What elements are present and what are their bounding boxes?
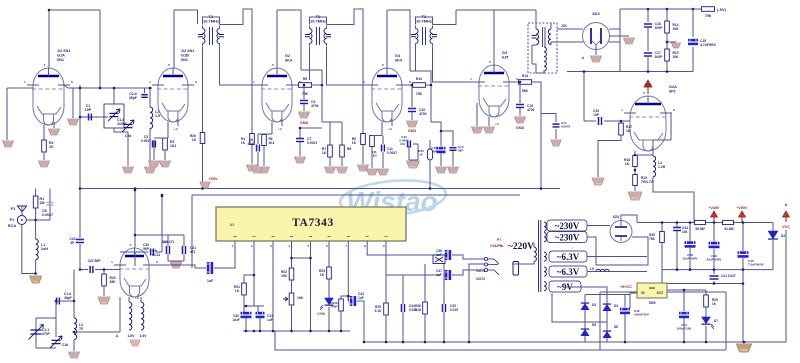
label C42 bbox=[634, 309, 649, 317]
ground below L3 bbox=[69, 352, 80, 358]
inductor L1 bbox=[36, 239, 39, 260]
capacitor C6 bypass bbox=[257, 145, 260, 152]
label R23 bbox=[319, 269, 325, 277]
label V8 bbox=[592, 11, 600, 16]
svg-text:G2A: G2A bbox=[669, 85, 677, 89]
label L1 bbox=[41, 243, 48, 251]
node PSU junctions bbox=[689, 221, 692, 224]
svg-text:G3: G3 bbox=[395, 54, 400, 58]
capacitor C22 bbox=[90, 266, 93, 273]
wire: R14 rail bbox=[666, 9, 668, 21]
svg-text:C41 0.047: C41 0.047 bbox=[721, 274, 736, 278]
label C10 bbox=[419, 108, 427, 116]
LED D7 bbox=[702, 317, 711, 324]
potentiometer VR1 bbox=[289, 293, 294, 305]
node detector junctions bbox=[647, 8, 650, 11]
label D4 bbox=[614, 304, 618, 308]
T4 tertiary winding bbox=[544, 47, 546, 71]
wire: T1 secondary left down to bus bbox=[202, 47, 204, 189]
wire: L3 leads bbox=[74, 270, 120, 352]
wire: C1 line bbox=[80, 116, 108, 118]
IC U1 pin marks bbox=[234, 236, 388, 238]
svg-text:D2: D2 bbox=[781, 234, 785, 238]
label R4 bbox=[241, 137, 246, 145]
wire: C5 branch bbox=[303, 85, 305, 99]
diode D4 bbox=[603, 304, 611, 311]
wire: vertical rail x100 bbox=[99, 10, 101, 88]
wire: rail x453 bbox=[441, 131, 453, 146]
decorative watermark swoosh bbox=[339, 176, 448, 219]
wire: V7 grid input bbox=[95, 269, 120, 271]
detector diode tube V8 (6D2) bbox=[583, 23, 610, 50]
capacitor C11 bypass bbox=[382, 145, 385, 152]
wire: T4 to detector top bbox=[557, 28, 583, 30]
capacitor C3 bypass bbox=[153, 141, 156, 148]
capacitor C35 bbox=[443, 304, 446, 312]
IF transformer T3 bbox=[411, 14, 437, 47]
pentode V2 (6K4) bbox=[149, 63, 197, 122]
capacitor C40 bbox=[738, 251, 749, 257]
converter V7 (6U1) bbox=[111, 243, 158, 297]
wire: rail x441 bbox=[431, 122, 441, 146]
svg-text:A: A bbox=[582, 56, 585, 60]
capacitor C31 bbox=[256, 312, 265, 318]
svg-text:1K: 1K bbox=[49, 145, 54, 149]
wire: zener column bbox=[772, 223, 774, 270]
resistor R15 bbox=[665, 49, 670, 61]
T4 primary cap bbox=[532, 36, 537, 39]
node V3 junctions bbox=[321, 84, 324, 87]
svg-text:0.0047: 0.0047 bbox=[141, 139, 151, 143]
svg-text:10.7MHz: 10.7MHz bbox=[416, 19, 432, 24]
svg-text:U1: U1 bbox=[230, 223, 235, 227]
resistor R24b bbox=[339, 299, 344, 311]
ground below C15 bbox=[515, 117, 526, 123]
wire: 230V-2 to rectifier loop bbox=[587, 237, 648, 265]
wire: C23 right bbox=[214, 267, 235, 269]
node V5 junctions bbox=[519, 81, 522, 84]
svg-text:P1: P1 bbox=[10, 218, 15, 222]
resistor R9 decoupling bbox=[361, 134, 366, 145]
capacitor C42 bbox=[620, 308, 630, 314]
svg-text:6Z4: 6Z4 bbox=[613, 215, 620, 219]
LED D7 arrows bbox=[711, 324, 714, 329]
label C7 bbox=[307, 137, 317, 145]
wire: V2 plate lead bbox=[173, 10, 175, 68]
capacitor C8 trimmer bbox=[47, 203, 54, 206]
wire: R24b leads bbox=[329, 296, 350, 331]
svg-text:1K: 1K bbox=[320, 273, 325, 277]
wire: R23 down bbox=[328, 279, 330, 298]
label R6 bbox=[269, 137, 275, 145]
svg-text:1.6V: 1.6V bbox=[140, 334, 148, 338]
svg-text:0.0047: 0.0047 bbox=[399, 139, 409, 143]
ground below C14b bbox=[551, 140, 561, 146]
voltage tap box 230V-2 bbox=[547, 232, 587, 243]
svg-text:1uF: 1uF bbox=[358, 296, 364, 300]
label C43 bbox=[677, 323, 692, 331]
IC U1 TA7343 body bbox=[216, 207, 406, 241]
svg-text:100P: 100P bbox=[655, 55, 664, 59]
ground below R4 bbox=[247, 165, 258, 171]
wire: R14 down bbox=[666, 33, 668, 49]
svg-text:RCA: RCA bbox=[8, 224, 16, 228]
wire: T1 pin bridge bbox=[203, 17, 220, 25]
wire: T2 pin bridge bbox=[310, 17, 327, 25]
ground below C7 bbox=[295, 157, 306, 163]
svg-text:1K: 1K bbox=[322, 151, 327, 155]
capacitor C17 bbox=[644, 53, 652, 56]
capacitor C37 out right bbox=[445, 270, 451, 280]
wire: U1 pin7 bbox=[347, 241, 349, 301]
oscillator coil L3 bbox=[74, 318, 77, 340]
resistor R3 at V2 cathode bbox=[163, 138, 168, 150]
potentiometer VR1 wiper bbox=[283, 297, 288, 301]
node pin2 junctions bbox=[253, 274, 256, 277]
label C14b bbox=[561, 121, 571, 129]
wire: V6 cathode lead bbox=[634, 151, 636, 156]
svg-text:1K: 1K bbox=[712, 302, 717, 306]
capacitor C13 bbox=[437, 147, 446, 153]
wire: V1 grid rail down bbox=[6, 88, 8, 140]
label R21 bbox=[234, 285, 240, 293]
wire: T3 pin bridge bbox=[416, 17, 433, 25]
wire: C37 to jack bbox=[452, 270, 484, 275]
resistor R30 bleeder bbox=[660, 232, 665, 243]
svg-text:1uF: 1uF bbox=[436, 253, 442, 257]
label D5 bbox=[592, 323, 596, 327]
label C1-1 bbox=[42, 328, 51, 336]
label D2 bbox=[781, 234, 785, 238]
wire: L2 leads bbox=[149, 88, 151, 166]
svg-text:1M: 1M bbox=[40, 201, 45, 205]
wire: R20 leads bbox=[103, 270, 105, 297]
ground below heater bbox=[130, 340, 140, 346]
wire: grid coupling y88 bbox=[80, 87, 152, 89]
wire: V3 plate lead bbox=[276, 10, 278, 68]
capacitor C16 bbox=[644, 24, 652, 27]
wire: screen rail x431 bbox=[430, 85, 432, 122]
transformer PT primary bbox=[534, 247, 536, 261]
wire: V4 plate lead bbox=[386, 10, 388, 68]
wire: V6 right pin bbox=[653, 113, 671, 156]
wire: trimmer lead down bbox=[127, 132, 129, 166]
svg-text:1uH: 1uH bbox=[41, 247, 48, 251]
supply arrow +B red bbox=[644, 80, 652, 94]
capacitor C12 bbox=[408, 141, 411, 148]
wire: C40 leads bbox=[742, 223, 744, 343]
label V1 bbox=[57, 49, 70, 62]
wire: VCC rail down bbox=[785, 230, 787, 342]
pentode V4 (6K4) bbox=[363, 63, 411, 122]
svg-text:6K4: 6K4 bbox=[285, 58, 293, 62]
ground below C11 bbox=[378, 169, 389, 175]
ground at V5 cathode bbox=[484, 127, 495, 133]
label R7 bbox=[322, 147, 327, 155]
svg-text:471: 471 bbox=[190, 250, 196, 254]
capacitor C23 coupling bbox=[207, 262, 213, 274]
wire: C2-b stem bbox=[144, 88, 146, 93]
label R24b bbox=[330, 301, 338, 309]
svg-text:6D2: 6D2 bbox=[592, 11, 600, 16]
resistor R27 filter bbox=[695, 220, 706, 224]
wire: R22 leads bbox=[291, 258, 293, 293]
wire: R7 down bbox=[329, 157, 331, 166]
label C2-b bbox=[129, 92, 137, 100]
inductor L2 bbox=[150, 107, 153, 129]
wire: V7 plate bus junctions bbox=[162, 195, 168, 242]
label R15 bbox=[673, 51, 680, 59]
wire: V4 cathode leads bbox=[382, 119, 392, 136]
wire: R21 leads bbox=[244, 275, 264, 312]
label C35 bbox=[450, 304, 458, 312]
PT secondary 230V-2 bbox=[544, 233, 546, 242]
label C23 bbox=[207, 279, 213, 283]
wire: jack sleeve column bbox=[468, 272, 470, 342]
ground below C20 C21 bbox=[171, 262, 182, 268]
IF transformer T1 bbox=[198, 14, 224, 47]
svg-text:3P: 3P bbox=[70, 241, 75, 245]
svg-text:91.8W: 91.8W bbox=[724, 227, 733, 231]
node pin7 junctions bbox=[347, 295, 350, 298]
label C39 bbox=[707, 254, 722, 262]
wire: C11 link bbox=[382, 136, 384, 169]
wire: C21 leads bbox=[168, 235, 184, 261]
svg-text:1K2: 1K2 bbox=[170, 144, 176, 148]
node main ground junction bbox=[743, 341, 746, 344]
wire: U1 pin3 bbox=[272, 241, 274, 331]
wire: C10 to ground bbox=[411, 112, 413, 120]
wire: top bus stage4 bbox=[387, 10, 410, 71]
wire: R3 to ground bbox=[165, 138, 168, 160]
wire: pin4 right link bbox=[292, 257, 311, 259]
wire: R15 down bbox=[666, 61, 668, 72]
ground below L2 bbox=[145, 167, 156, 173]
svg-text:56K: 56K bbox=[522, 89, 529, 93]
svg-text:1K: 1K bbox=[625, 162, 630, 166]
wire: C25 leads bbox=[120, 242, 162, 266]
wire: U1 pin4 bbox=[291, 241, 293, 258]
ground below C6 bbox=[252, 167, 263, 173]
label R10 bbox=[416, 77, 422, 81]
label R11 bbox=[371, 150, 377, 158]
resistor R22 bbox=[289, 268, 294, 280]
resistor R2b on AVC rail bbox=[200, 133, 205, 144]
diode D5 bbox=[581, 329, 589, 336]
wire: detector cathode to ground bbox=[595, 49, 597, 55]
svg-text:0.5A/PBL: 0.5A/PBL bbox=[490, 244, 504, 248]
svg-text:OUT2: OUT2 bbox=[476, 277, 485, 281]
resistor R21 bbox=[242, 283, 247, 295]
label R27 bbox=[695, 227, 704, 231]
svg-text:10P: 10P bbox=[85, 108, 92, 112]
svg-text:1K: 1K bbox=[352, 141, 357, 145]
capacitor C2-b bbox=[141, 95, 148, 98]
main ground bbox=[737, 344, 752, 352]
svg-text:R5: R5 bbox=[303, 77, 307, 81]
ground below C14 bbox=[448, 167, 459, 173]
wire: jack sleeve bbox=[469, 264, 484, 272]
capacitor C25 bbox=[151, 249, 154, 256]
wire: R30 column bbox=[661, 223, 663, 270]
heater coil V7 right bbox=[141, 302, 144, 330]
resistor R23 bbox=[327, 267, 332, 279]
PT core bbox=[539, 220, 541, 292]
svg-text:10.7MHz: 10.7MHz bbox=[203, 19, 219, 24]
capacitor C10 bbox=[408, 109, 416, 112]
wire: bridge right column bbox=[606, 298, 608, 342]
wire: V4 anode-side pin to R10 bbox=[402, 84, 413, 86]
wire: detector right bottom pin bbox=[609, 41, 620, 43]
svg-text:1K: 1K bbox=[192, 138, 197, 142]
svg-text:TF: TF bbox=[79, 327, 83, 331]
svg-text:A: A bbox=[785, 203, 788, 207]
ground below R20 bbox=[98, 297, 110, 304]
label L2 bbox=[155, 110, 160, 118]
wire: R2 to ground bbox=[43, 152, 45, 160]
label C1-b bbox=[117, 118, 127, 126]
supply arrow +250V red bbox=[737, 206, 748, 222]
svg-text:F1: F1 bbox=[11, 207, 15, 211]
capacitor C15 bbox=[516, 105, 524, 108]
wire: V1 grid line left bbox=[7, 87, 33, 89]
svg-text:G1B: G1B bbox=[181, 53, 189, 57]
ground below R9 bbox=[358, 165, 369, 171]
resistor R16 AVC bbox=[702, 7, 715, 12]
supply arrow A VCC red bbox=[782, 203, 790, 229]
capacitor C39 bbox=[709, 242, 720, 248]
wire: U1 pin8 bbox=[367, 241, 440, 255]
svg-text:D5: D5 bbox=[592, 323, 596, 327]
wire: C14 down bbox=[452, 151, 454, 166]
label C14 bbox=[458, 145, 464, 153]
capacitor C44 bbox=[673, 228, 681, 231]
ground at ratio detector tap bbox=[624, 38, 635, 44]
node input junctions bbox=[34, 219, 37, 222]
ground below R3 bbox=[160, 161, 171, 167]
node V6 grid junction bbox=[620, 120, 623, 123]
wire: C18 column bbox=[692, 9, 694, 72]
diode D6 bbox=[603, 331, 611, 338]
svg-text:104: 104 bbox=[682, 230, 688, 234]
pentode V3 (6K4) bbox=[253, 63, 301, 122]
label C19 bbox=[593, 109, 600, 117]
resistor R18 cathode bbox=[633, 156, 638, 167]
wire: audio drop to V6 grid bbox=[583, 72, 585, 122]
resistor R28 filter bbox=[723, 220, 734, 224]
wire: C19 to grid bbox=[604, 120, 630, 122]
capacitor C19 bbox=[599, 117, 602, 125]
wire: U1 pin2 bbox=[253, 241, 255, 306]
wire: T1 right goalpost bbox=[220, 9, 253, 133]
label C1-e bbox=[62, 343, 68, 347]
wire: vertical rail x192 bbox=[191, 195, 193, 268]
svg-text:VCC: VCC bbox=[782, 225, 790, 229]
wire: tank right bbox=[55, 301, 57, 348]
svg-text:10K: 10K bbox=[297, 296, 304, 300]
label R5 value bbox=[302, 92, 309, 96]
wire: detector right top pin bbox=[609, 28, 620, 30]
wire: T4 to detector bottom bbox=[551, 42, 583, 45]
svg-text:1/2 6N1: 1/2 6N1 bbox=[57, 49, 70, 53]
voltage tap box 9V bbox=[549, 281, 581, 292]
node osc junctions bbox=[73, 300, 76, 303]
ground below C13 bbox=[436, 167, 447, 173]
label R26 bbox=[415, 304, 422, 312]
svg-text:0.0047: 0.0047 bbox=[561, 125, 571, 129]
label D7 bbox=[714, 319, 718, 323]
wire: R13 to junction bbox=[531, 82, 541, 189]
svg-text:1M: 1M bbox=[626, 129, 631, 133]
resistor R5 bbox=[299, 83, 312, 88]
wire: C13 down bbox=[440, 153, 442, 166]
label C5 bbox=[311, 100, 319, 108]
svg-text:7809: 7809 bbox=[648, 301, 655, 305]
label L3 bbox=[79, 323, 83, 331]
wire: ratio cap rail 1 bbox=[647, 9, 649, 22]
wire: V2 cathode leads bbox=[168, 119, 178, 138]
label V5 bbox=[502, 51, 508, 59]
wire: C5 to ground bbox=[303, 104, 305, 111]
node V1 junctions bbox=[48, 9, 51, 12]
svg-text:6N1: 6N1 bbox=[57, 58, 64, 62]
heater wiring coil bbox=[596, 269, 609, 271]
wire: bridge left column bbox=[584, 295, 586, 343]
wire: V4 plate feed drop bbox=[410, 71, 431, 85]
ground below V6 cathode chain bbox=[628, 192, 642, 200]
resistor R6 at V3 cathode bbox=[262, 135, 267, 146]
detector transformer T4 shield box bbox=[528, 23, 557, 73]
wire: PSU left edge bbox=[600, 291, 726, 293]
IC U1 pin numbers bbox=[232, 244, 385, 248]
ground below C2-a bbox=[123, 167, 134, 173]
wire: C33 leads bbox=[348, 296, 364, 342]
wire: U1 pin1 bbox=[214, 241, 235, 268]
wire: C15 to ground bbox=[519, 108, 521, 116]
tuning gang box C1-b bbox=[104, 104, 124, 128]
ground below R8 bbox=[337, 167, 348, 173]
jack J1 contacts bbox=[484, 257, 499, 275]
capacitor C43 bbox=[679, 312, 689, 318]
resistor R10 bbox=[413, 83, 426, 88]
capacitor C33 bbox=[350, 296, 356, 306]
wire: detector top bus bbox=[620, 8, 693, 10]
wire: R9 down bbox=[362, 145, 364, 165]
svg-text:R10: R10 bbox=[416, 77, 422, 81]
resistor R17 bbox=[619, 123, 624, 135]
wire: R19 to ground bbox=[634, 186, 636, 192]
ground below C12 bbox=[407, 161, 420, 168]
resistor R20 bbox=[102, 274, 107, 286]
wire: C16 down bbox=[647, 28, 649, 51]
label R13 value bbox=[522, 89, 529, 93]
wire: decoder bus y196 bbox=[192, 194, 520, 196]
wire: C44 column bbox=[676, 223, 678, 270]
label T4 sec bbox=[561, 24, 568, 28]
resistor R19 bbox=[633, 175, 638, 186]
svg-text:+250V: +250V bbox=[208, 177, 218, 181]
wire: ratio mid ground stub bbox=[667, 41, 676, 43]
zener diode D2 bbox=[768, 231, 778, 239]
resistor R8 bbox=[340, 145, 345, 157]
capacitor C14 bbox=[450, 148, 457, 151]
T4 primary right winding bbox=[548, 29, 551, 45]
svg-text:75K: 75K bbox=[416, 92, 423, 96]
svg-text:10K: 10K bbox=[673, 27, 680, 31]
svg-text:56.8W: 56.8W bbox=[695, 227, 704, 231]
wire: V3 cathode leads bbox=[272, 119, 282, 134]
ground below R7 bbox=[325, 167, 336, 173]
